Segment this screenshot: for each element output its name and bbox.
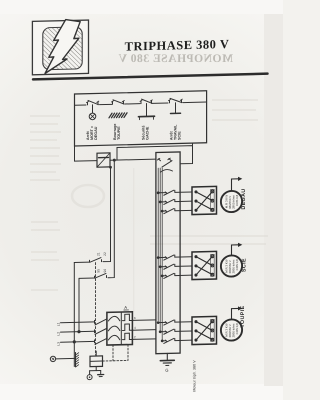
earth electrode circle	[50, 356, 55, 362]
ghost paragraph left margin	[30, 116, 61, 290]
wire V2	[108, 160, 114, 278]
wire L3	[61, 340, 95, 343]
motor M1 nameplate	[225, 194, 240, 209]
coupling arc	[161, 169, 173, 172]
wire drop to L2	[78, 278, 80, 331]
thermal arc 1	[108, 316, 120, 321]
motor M1	[221, 191, 242, 213]
phase bus	[158, 168, 162, 340]
heater notch 2	[123, 324, 132, 331]
motor M2 nameplate	[225, 259, 240, 274]
contactor contact K32	[160, 329, 192, 335]
svg-text:TOUPIE: TOUPIE	[117, 126, 121, 140]
svg-text:Moteur triph. 380 V: Moteur triph. 380 V	[193, 360, 197, 392]
svg-text:L1: L1	[56, 322, 60, 326]
thermal arc 2	[108, 326, 120, 331]
junction node on L3	[73, 341, 75, 343]
heater notch 3	[123, 333, 132, 340]
switch S4 arret travail	[170, 98, 183, 103]
branch to lamp	[89, 371, 91, 375]
earth symbol	[98, 374, 104, 376]
wire V1	[103, 167, 111, 262]
svg-text:22: 22	[103, 252, 107, 256]
svg-text:COS 0,8: COS 0,8	[235, 323, 239, 335]
contactor contact K13	[162, 208, 192, 214]
trip linkage dashed	[95, 263, 97, 355]
arrow M2	[232, 245, 239, 256]
wire fuse to main switch	[110, 159, 156, 160]
header rule	[33, 74, 268, 80]
ghost stamp circle	[72, 185, 104, 207]
lightning bolt	[45, 19, 80, 73]
wire NC1 left	[74, 261, 89, 263]
output wires to distribution	[132, 320, 156, 340]
contactor contact K31	[158, 320, 192, 326]
svg-text:A: A	[124, 305, 127, 310]
paper crease line	[133, 168, 135, 312]
svg-text:TRIPHASE 380 V: TRIPHASE 380 V	[125, 37, 230, 54]
branch to earth bars	[100, 370, 102, 373]
contactor contact K12	[160, 199, 192, 205]
svg-text:GACHE: GACHE	[146, 126, 150, 140]
lamp under S1	[92, 105, 94, 113]
chassis earth hatched	[75, 353, 77, 367]
wire NC2 left	[79, 277, 95, 279]
wire L2	[61, 330, 95, 333]
breaker contact Q1a	[95, 319, 107, 325]
trip dashed lines	[103, 345, 129, 361]
main switch contacts	[158, 158, 171, 160]
motor M3 nameplate	[225, 323, 240, 338]
switch S2 bourrage	[113, 100, 125, 105]
wire L1	[61, 321, 95, 324]
contactor contact K21	[158, 255, 192, 261]
contactor contact K22	[160, 264, 192, 270]
logo outer box	[32, 20, 88, 75]
wire drop to earth	[73, 263, 75, 367]
terminal box M2	[192, 251, 217, 279]
svg-text:L3: L3	[56, 342, 60, 346]
arrow M1	[232, 179, 239, 191]
wire drop from control box	[74, 146, 76, 161]
logo hatched rounded square	[43, 27, 82, 70]
svg-text:DEGAU: DEGAU	[241, 188, 247, 209]
wire to chassis	[56, 357, 76, 359]
svg-text:MONOPHASE 380 V: MONOPHASE 380 V	[118, 52, 233, 65]
indicator lamp	[87, 375, 92, 380]
switch S1 arret mort	[88, 100, 99, 105]
svg-text:21: 21	[97, 252, 101, 256]
svg-text:DEGAU: DEGAU	[94, 126, 98, 140]
hatch scribble under S2	[109, 113, 127, 118]
contactor contact K33	[162, 338, 192, 344]
svg-text:L2: L2	[56, 332, 60, 336]
svg-text:TOUPIE: TOUPIE	[240, 305, 246, 327]
contactor contact K11	[158, 190, 192, 196]
crossing wires M1	[196, 191, 212, 210]
bar under S4	[175, 103, 177, 113]
svg-text:COS 0,8: COS 0,8	[235, 194, 239, 206]
breaker contact Q1c	[95, 339, 107, 345]
svg-text:96: 96	[103, 269, 107, 273]
fuse F1	[97, 153, 110, 167]
ghost text rows mid right	[150, 100, 268, 244]
switch S3 securite	[141, 99, 152, 104]
svg-text:G: G	[165, 368, 168, 373]
crossing wires M2	[196, 256, 212, 275]
ground under distribution box	[166, 353, 168, 360]
junction node on L2	[78, 331, 80, 333]
aux contact NC1	[90, 258, 102, 263]
contactor contact K23	[162, 273, 192, 279]
distribution box	[156, 152, 180, 354]
neutral fuse box	[90, 356, 103, 367]
thermal arc 3	[108, 335, 120, 340]
wire to fuse	[75, 160, 98, 163]
arrow M3	[232, 308, 239, 319]
wire stub to control box	[192, 143, 194, 146]
motor M2	[221, 255, 242, 277]
terminal box M3	[192, 316, 217, 344]
svg-text:SCIE: SCIE	[242, 258, 248, 272]
overload relay box	[107, 312, 132, 345]
svg-text:SCIE: SCIE	[178, 131, 182, 140]
terminal box M1	[192, 186, 217, 214]
motor M3	[221, 319, 242, 341]
crossing wires M3	[196, 321, 212, 340]
svg-text:95: 95	[97, 269, 101, 273]
right page edge shading	[264, 14, 283, 386]
heater notch 1	[123, 314, 132, 321]
control circuit box	[75, 91, 207, 146]
T junction bar	[90, 369, 101, 371]
wire loop upper	[117, 146, 193, 166]
svg-text:COS 0,8: COS 0,8	[235, 259, 239, 271]
control chain wire	[75, 102, 207, 105]
aux contact NC2	[95, 273, 107, 278]
breaker contact Q1b	[95, 329, 107, 335]
pushbutton bar under S3	[146, 103, 148, 116]
